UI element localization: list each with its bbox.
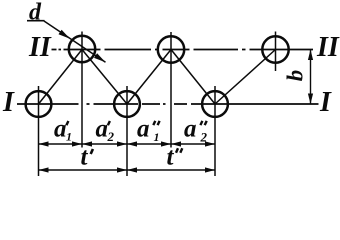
- arrowhead pair a-row at x=82: [72, 141, 92, 146]
- hole T1 (top row): [69, 36, 95, 62]
- svg-text:a: a: [96, 116, 109, 143]
- svg-text:t: t: [167, 144, 175, 171]
- arrowhead a-row left end (x=38.5): [39, 141, 49, 146]
- hole B3 (bottom row): [202, 91, 228, 117]
- underline of label d: [27, 20, 45, 22]
- arrowhead b top: [308, 50, 313, 61]
- svg-text:a: a: [54, 116, 67, 143]
- hole B2 (bottom row): [114, 91, 140, 117]
- svg-text:2: 2: [107, 129, 115, 144]
- svg-text:I: I: [2, 87, 15, 118]
- label a''1: [137, 116, 160, 145]
- svg-text:I: I: [319, 87, 332, 118]
- centerline / extension line of bottom hole B1 (x=38.5): [38, 86, 40, 176]
- node II-II axis (top gauge line, dash-dot): [52, 49, 314, 51]
- svg-text:b: b: [283, 70, 308, 82]
- svg-text:II: II: [28, 32, 52, 63]
- dimension line row 2 (t-chain): [39, 169, 216, 171]
- svg-text:1: 1: [154, 130, 160, 144]
- arrowhead of leader d at tail end: [94, 53, 106, 62]
- hole B1 (bottom row): [26, 91, 52, 117]
- svg-text:II: II: [316, 32, 340, 63]
- arrowhead t-row left end (x=38.5): [39, 167, 49, 172]
- wire diagonal T1-B2: [82, 50, 127, 105]
- centerline / extension line of top hole T1 (x=82): [81, 32, 83, 148]
- arrowhead a-row right end (x=215): [205, 141, 215, 146]
- hole T3 (top row): [262, 36, 288, 62]
- dimension line b (vertical): [310, 50, 312, 105]
- hole T2 (top row): [158, 36, 184, 62]
- label a'1: [54, 116, 72, 144]
- svg-text:a: a: [137, 116, 150, 143]
- centerline of top hole T3 (x=275.5): [275, 32, 277, 72]
- centerline / extension line of bottom hole B3 (x=215): [214, 86, 216, 176]
- arrowhead of leader d at hole edge: [59, 30, 71, 39]
- dimension line row 1 (a-chain): [39, 143, 216, 145]
- label a'2: [96, 116, 115, 145]
- svg-text:t: t: [81, 144, 89, 171]
- wire diagonal B2-T2: [127, 50, 171, 105]
- label a''2: [184, 116, 208, 145]
- centerline / extension line of bottom hole B2 (x=127): [126, 86, 128, 176]
- label t'': [167, 144, 183, 171]
- label t': [81, 144, 93, 171]
- svg-text:d: d: [29, 0, 42, 26]
- wire diagonal B3-T3: [215, 50, 276, 105]
- arrowhead t-row right end (x=215): [205, 167, 215, 172]
- arrowhead pair a-row at x=171: [161, 141, 181, 146]
- wire diagonal T2-B3: [171, 50, 215, 105]
- svg-text:a: a: [184, 116, 197, 143]
- wire diagonal B1-T1: [39, 50, 83, 105]
- arrowhead pair t-row at x=127: [117, 167, 137, 172]
- svg-text:1: 1: [66, 130, 72, 144]
- arrowhead b bottom: [308, 94, 313, 105]
- centerline / extension line of top hole T2 (x=171): [170, 32, 172, 148]
- svg-text:2: 2: [200, 130, 208, 145]
- leader line for label d: [44, 21, 106, 62]
- node I-I axis (bottom gauge line, dash-dot): [17, 103, 319, 105]
- arrowhead pair a-row at x=127: [117, 141, 137, 146]
